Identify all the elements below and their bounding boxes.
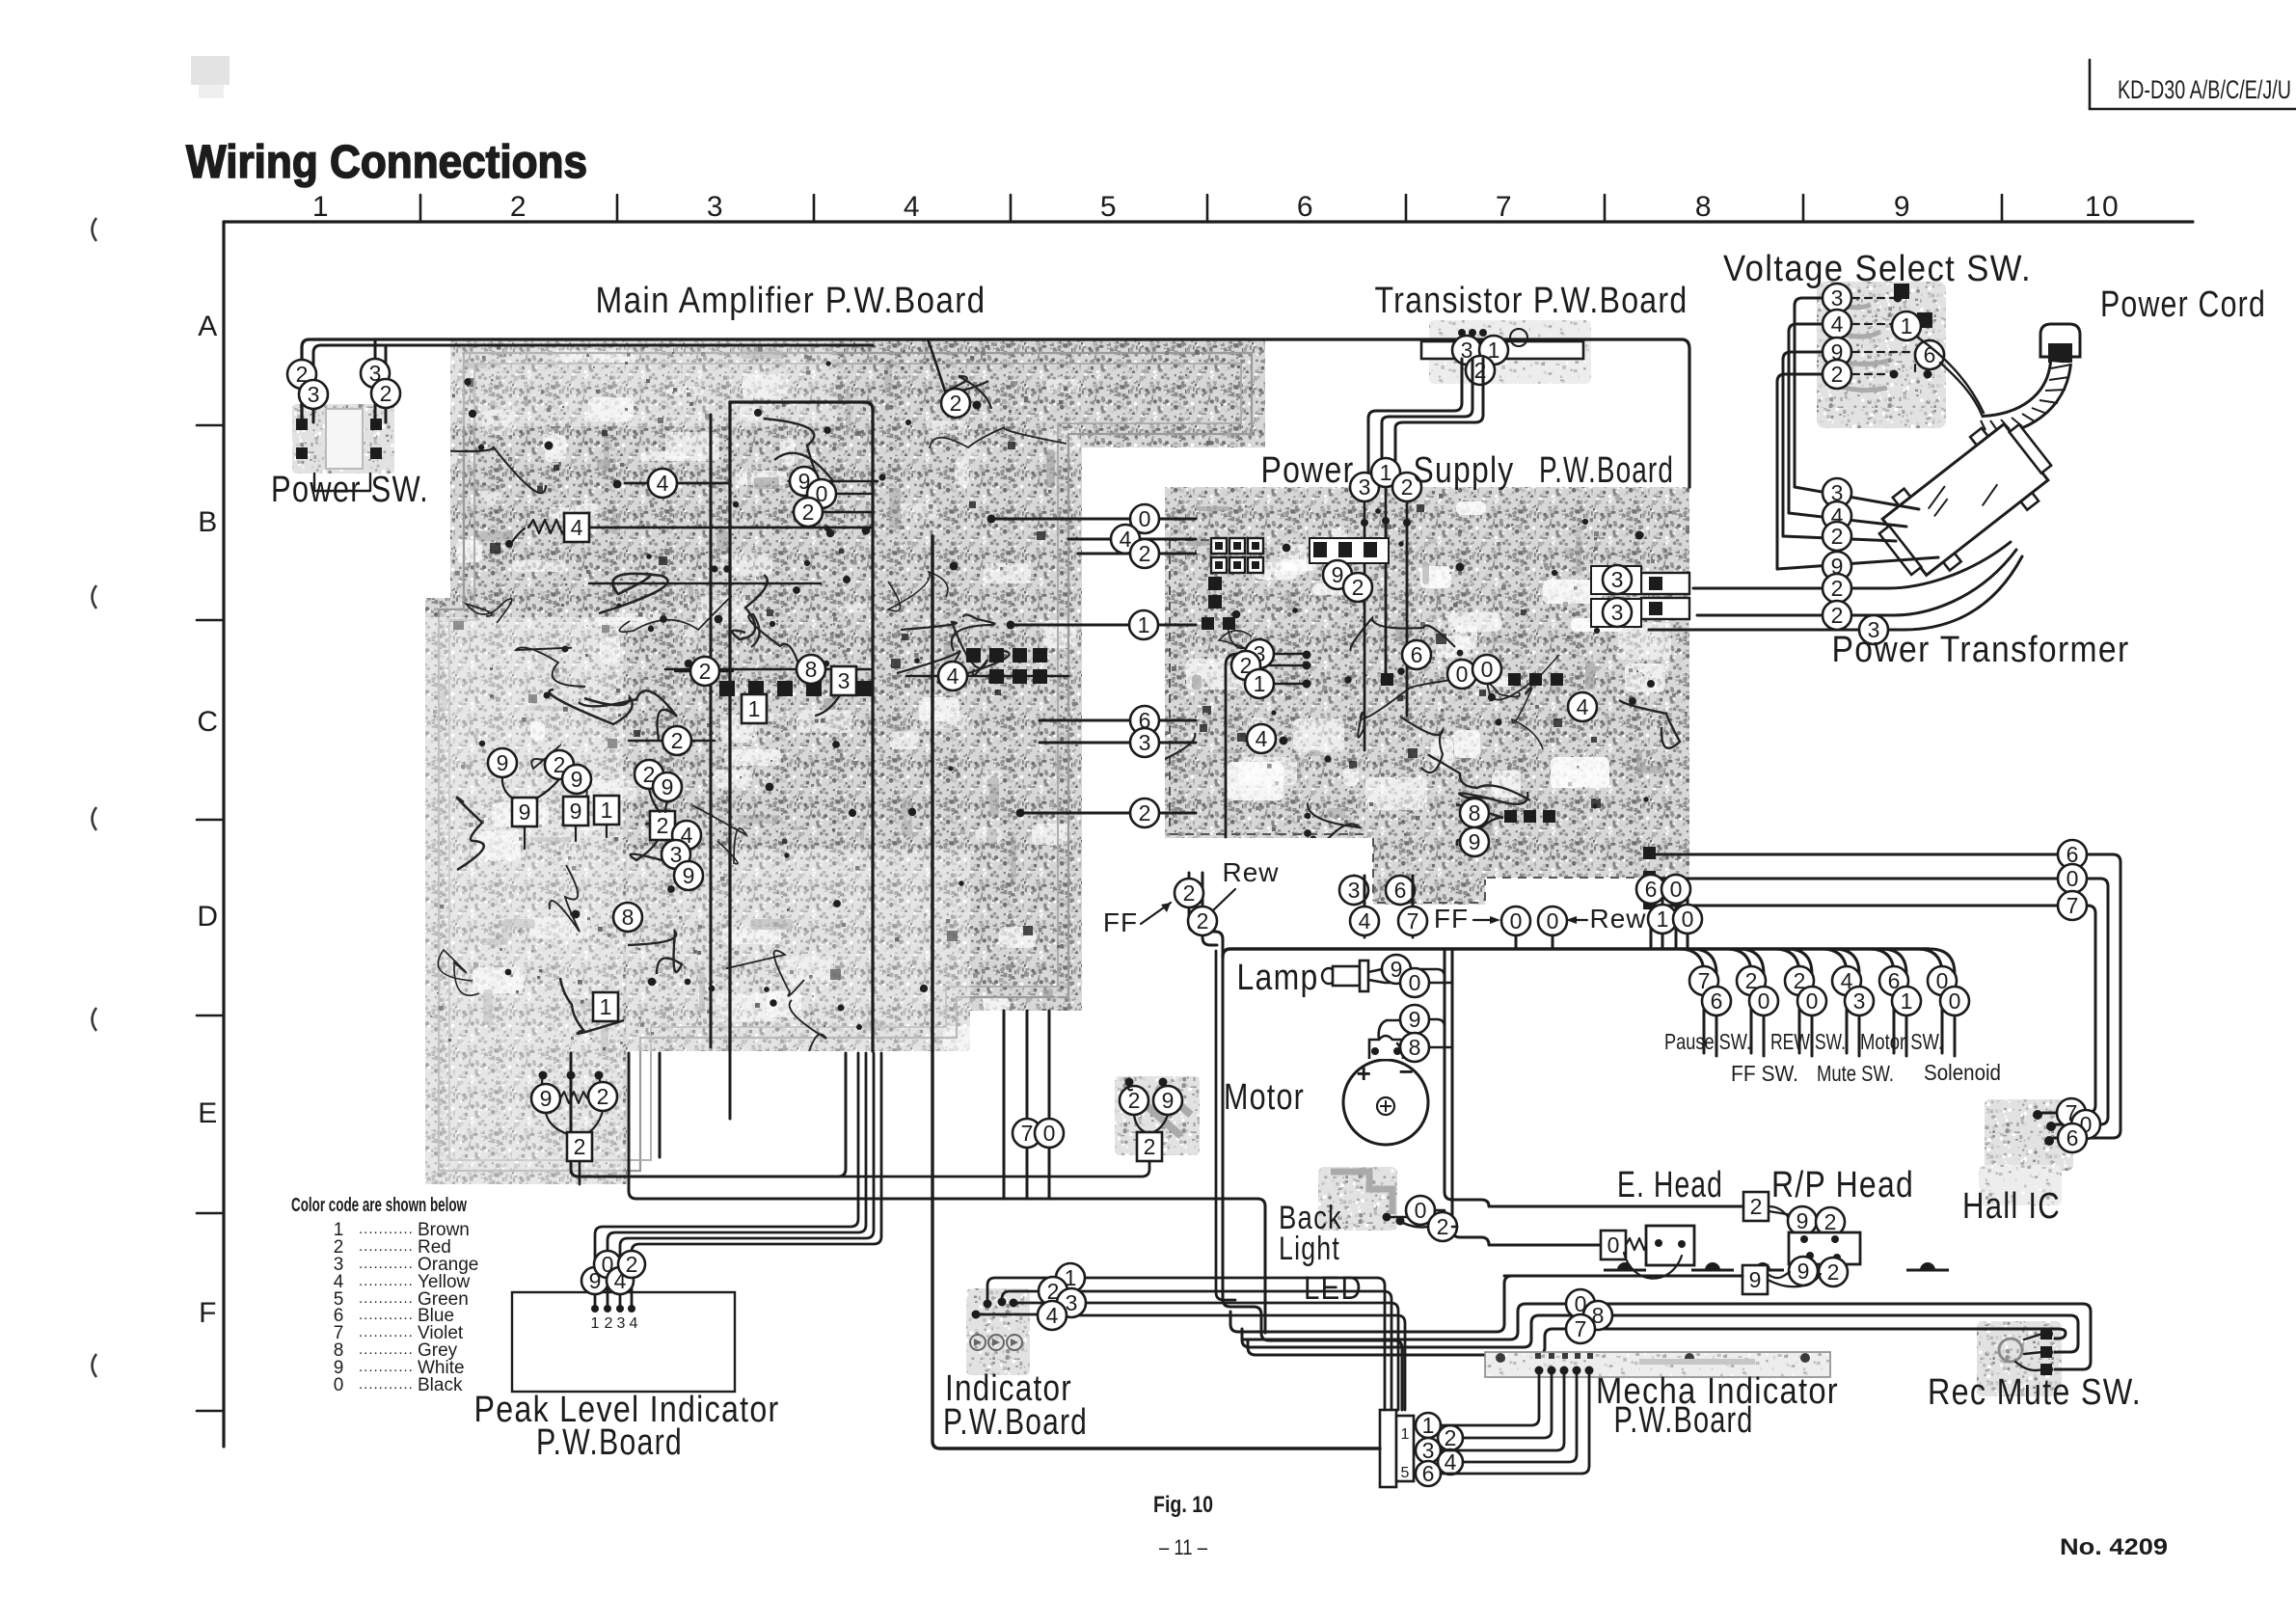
main amp trio red: [794, 498, 823, 527]
svg-text:E. Head: E. Head: [1617, 1165, 1723, 1205]
svg-text:Power Transformer: Power Transformer: [1832, 630, 2130, 670]
svg-text:Power: Power: [1261, 450, 1355, 491]
motor terminal block: [1369, 1036, 1403, 1059]
svg-text:2: 2: [1827, 1259, 1840, 1285]
wire peak level red: [632, 1053, 881, 1309]
cluster box tails: [525, 825, 607, 849]
ps trio drop wire: [1226, 654, 1237, 837]
hall IC feed violet: [2058, 891, 2087, 920]
dashed lead 9: [1852, 352, 1915, 372]
svg-text:6: 6: [1394, 878, 1407, 903]
svg-text:7: 7: [1021, 1121, 1034, 1146]
cluster boxed 9 b: [563, 797, 588, 826]
svg-text:P.W.Board: P.W.Board: [1614, 1400, 1754, 1441]
svg-text:1: 1: [1254, 671, 1266, 696]
svg-text:2: 2: [1401, 474, 1414, 500]
wire stub ps orange: [1364, 501, 1366, 521]
svg-text:2: 2: [574, 1134, 586, 1159]
wire mecha 1: [1441, 1375, 1539, 1425]
power SW terminal dot 1: [298, 420, 306, 428]
indicator pin 4: [972, 1311, 981, 1319]
power SW wire red: [287, 360, 316, 389]
patch wires merge: [1134, 1115, 1168, 1132]
svg-text:0: 0: [334, 1375, 344, 1395]
wire patch to left: [579, 1161, 1149, 1177]
cluster boxed 1 b: [593, 992, 618, 1021]
svg-text:3: 3: [1853, 988, 1866, 1014]
wire main amp to power supply 0: [991, 518, 1196, 521]
wire main amp to power supply 4: [1068, 538, 1196, 541]
svg-text:0: 0: [1949, 988, 1961, 1014]
peak level wire black code: [594, 1251, 621, 1278]
power supply left connector row 1: [1211, 538, 1263, 554]
svg-text:6: 6: [2066, 1125, 2079, 1150]
Rew switch wire black: [1538, 907, 1567, 935]
indicator wire orange code: [1057, 1288, 1086, 1317]
svg-text:B: B: [198, 506, 219, 538]
hall IC wire violet: [2057, 1098, 2086, 1127]
svg-text:3: 3: [707, 191, 724, 223]
color code legend row 8 Grey: [334, 1340, 458, 1361]
svg-text:5: 5: [1100, 191, 1118, 223]
interboard wire 4: [1111, 525, 1140, 554]
grid ruler tick 8: [1802, 195, 1805, 222]
Rew middle arrow: [1570, 919, 1587, 921]
motor terminal plus: [1371, 1047, 1379, 1055]
svg-text:Color code are shown below: Color code are shown below: [291, 1195, 467, 1216]
wire transistor to power supply 1: [1368, 359, 1462, 473]
svg-text:9: 9: [1469, 829, 1481, 854]
switch column wire left 1: [1679, 949, 1704, 1053]
main amplifier lighter zones: [425, 617, 623, 1184]
indicator PCB patch: [966, 1288, 1030, 1375]
wire circled4b run: [906, 675, 1068, 678]
wire white corner: [1238, 1276, 1512, 1332]
mecha indicator pin 4: [1573, 1367, 1581, 1375]
power SW pad 2: [370, 419, 382, 430]
svg-text:2: 2: [597, 1084, 609, 1109]
small PCB patch near motor: [1115, 1076, 1200, 1155]
main amp trio white: [790, 467, 819, 496]
svg-text:Rec Mute SW.: Rec Mute SW.: [1928, 1372, 2142, 1413]
drop wire black: [1661, 875, 1690, 904]
grid row tick F: [197, 1410, 224, 1413]
power supply edge wire orange 2: [1603, 598, 1632, 627]
long wire black code: [1566, 1289, 1595, 1318]
wire branch red top: [928, 339, 948, 399]
power transformer body: [1867, 409, 2064, 591]
svg-text:4: 4: [1445, 1449, 1457, 1475]
power supply edge connector boxes small: [1591, 566, 1641, 594]
Rew leader: [1213, 889, 1235, 910]
tape guide mark 2: [1691, 1262, 1734, 1270]
svg-text:3: 3: [617, 1315, 626, 1332]
svg-text:7: 7: [1407, 908, 1419, 934]
power cord solder pad 2: [1917, 312, 1932, 328]
svg-text:P.W.Board: P.W.Board: [1539, 450, 1674, 491]
power SW terminal dot 2: [371, 420, 379, 428]
svg-text:1: 1: [600, 994, 612, 1019]
svg-text:2: 2: [1352, 575, 1364, 600]
switch 1 upper color: [1689, 966, 1718, 995]
indicator wire brown code: [1056, 1263, 1085, 1292]
wire main amp interior vertical 2: [710, 415, 713, 1047]
svg-text:Rew: Rew: [1589, 904, 1646, 934]
patch boxed 2: [1137, 1132, 1162, 1161]
grid ruler tick 2: [616, 195, 619, 222]
grid row tick E: [197, 1212, 224, 1215]
svg-text:1: 1: [1401, 1426, 1410, 1443]
transistor board wire orange: [1452, 336, 1481, 365]
patch wire red code: [1120, 1086, 1148, 1115]
hall IC wire blue: [2058, 1123, 2087, 1152]
svg-text:3: 3: [308, 382, 320, 407]
power cord wire brown: [1892, 311, 1921, 340]
cluster 8: [613, 903, 642, 932]
power SW pad 3: [296, 447, 308, 459]
switch 5 lower color: [1892, 987, 1921, 1015]
svg-text:1: 1: [1380, 460, 1392, 485]
power supply right edge connector 2: [1641, 598, 1689, 619]
main amplifier P.W.Board copper artwork region: [425, 339, 1265, 1184]
switch 4 lower color: [1845, 987, 1874, 1015]
power supply right edge connector 1: [1641, 573, 1689, 594]
wire boxed9 to 2: [1768, 1274, 1821, 1286]
pin curves: [542, 1075, 603, 1098]
svg-text:2: 2: [1831, 362, 1844, 387]
wire indicator brown: [987, 1278, 1055, 1304]
wire boxed4 run: [589, 527, 871, 529]
svg-text:Power SW.: Power SW.: [271, 470, 429, 510]
tape guide mark 3: [1742, 1262, 1784, 1270]
color code legend row 3 Orange: [334, 1255, 479, 1275]
svg-text:2: 2: [1445, 1425, 1457, 1450]
wire power cord lead 1: [1918, 338, 1984, 413]
grid ruler tick 4: [1010, 195, 1013, 222]
R/P head pin 3: [1806, 1252, 1814, 1259]
wire lamp enclosure second vertical: [1216, 951, 1235, 1300]
wire power cord lead 6: [1940, 363, 1983, 417]
svg-text:6: 6: [1297, 191, 1314, 223]
voltage select wire white: [1823, 338, 1851, 366]
svg-text:9: 9: [540, 1086, 553, 1111]
R/P head wire white bottom: [1789, 1257, 1818, 1286]
main amplifier overlay solder dots: [464, 361, 964, 1030]
wire bus to E head boxed 2: [1445, 949, 1743, 1206]
R/P head pin 4: [1833, 1254, 1841, 1261]
hall IC lead black: [2056, 1123, 2072, 1126]
svg-text:9: 9: [1162, 1088, 1175, 1113]
wire trio black: [806, 493, 873, 496]
power cord wire blue: [1915, 340, 1944, 369]
wire boxed2 to 2: [1769, 1211, 1817, 1221]
binding mark 5: [93, 1354, 97, 1377]
back light LED PCB patch: [1318, 1167, 1397, 1231]
wire indicator orange: [1013, 1302, 1056, 1305]
svg-text:0: 0: [1547, 908, 1559, 934]
mecha wire red: [1438, 1425, 1463, 1450]
grid frame left vertical line: [222, 222, 225, 1447]
switch column wire right 5: [1881, 949, 1906, 1056]
switch 6 lower color: [1940, 987, 1969, 1015]
svg-text:No. 4209: No. 4209: [2060, 1534, 2168, 1560]
switch column wire left 6: [1917, 949, 1942, 1053]
svg-text:9: 9: [1332, 562, 1344, 587]
svg-text:1: 1: [1138, 612, 1150, 637]
svg-text:3: 3: [1611, 600, 1624, 625]
wire transformer secondary red 2: [1697, 550, 2016, 615]
grid ruler tick 7: [1604, 195, 1607, 222]
color code legend row 9 White: [334, 1358, 465, 1378]
svg-text:KD-D30 A/B/C/E/J/U: KD-D30 A/B/C/E/J/U: [2118, 75, 2291, 104]
wire blue stub below ps: [1399, 876, 1402, 905]
wire indicator yellow b: [1067, 1315, 1405, 1410]
R/P head boxed 2: [1743, 1192, 1769, 1221]
svg-text:2: 2: [1750, 1194, 1763, 1219]
peak level wire red code: [618, 1251, 645, 1278]
mecha wire orange: [1416, 1438, 1441, 1463]
rec mute SW PCB patch: [1977, 1321, 2062, 1396]
wire drop x1738: [1675, 880, 1678, 949]
power SW wire orange: [299, 380, 328, 409]
svg-text:1: 1: [1901, 988, 1913, 1014]
wire transformer secondary red 1: [1693, 542, 2011, 588]
ps interior brown: [1245, 669, 1274, 698]
drop wire black2: [1673, 905, 1702, 934]
lower cluster boxed 2: [567, 1132, 592, 1161]
hall IC PCB patch: [1985, 1099, 2073, 1171]
motor wire grey code: [1400, 1033, 1429, 1062]
binding mark 3: [93, 807, 97, 830]
main amp boxed 1: [742, 694, 767, 723]
svg-text:2: 2: [605, 1315, 613, 1332]
R/P head pin 2: [1831, 1235, 1839, 1243]
svg-text:...........: ...........: [359, 1221, 414, 1237]
color code legend row 6 Blue: [334, 1306, 454, 1326]
svg-text:2: 2: [626, 1252, 638, 1277]
power supply board dashed outline: [1170, 540, 1688, 903]
E head resistor squiggle: [1626, 1238, 1653, 1250]
svg-text:4: 4: [657, 471, 669, 496]
svg-text:10: 10: [2085, 191, 2120, 223]
below ps yellow: [1350, 907, 1379, 935]
main amp circled 4: [648, 469, 677, 498]
svg-text:4: 4: [1046, 1303, 1059, 1328]
wire power SW second conductor: [313, 345, 873, 422]
svg-text:4: 4: [571, 515, 583, 540]
dashed lead 4: [1852, 323, 1894, 325]
transistor board PCB patch: [1429, 320, 1591, 384]
cluster 2 b: [635, 760, 663, 789]
wire interior run 605: [589, 582, 821, 585]
wire indicator red: [1002, 1291, 1038, 1302]
power supply left connector row 2: [1211, 557, 1263, 573]
grid row tick C: [197, 819, 224, 822]
color code legend row 4 Yellow: [334, 1272, 471, 1292]
main amp top wire red: [941, 389, 970, 418]
voltage select wire red: [1823, 360, 1851, 389]
svg-text:2: 2: [1831, 603, 1844, 628]
svg-text:Voltage Select SW.: Voltage Select SW.: [1723, 249, 2032, 289]
svg-text:1: 1: [591, 1315, 600, 1332]
svg-text:2: 2: [1824, 1209, 1837, 1234]
ps interior pads row: [1202, 617, 1235, 630]
nest left corner 2: [1242, 1329, 1250, 1347]
svg-text:9: 9: [1749, 1267, 1762, 1292]
E head boxed 0: [1601, 1231, 1626, 1259]
lower cluster resistor: [560, 1092, 587, 1103]
pin dot c: [595, 1071, 604, 1080]
wire violet drop b: [1026, 1011, 1029, 1199]
rec mute link 3: [2015, 1362, 2042, 1370]
svg-text:1: 1: [1657, 907, 1669, 932]
ps interior blue: [1402, 640, 1431, 669]
wire circled8 run: [665, 668, 797, 671]
ps interior pads row2: [1504, 810, 1555, 823]
wire power SW to power supply top bus: [302, 339, 1689, 487]
dashed lead 3: [1852, 297, 1894, 299]
svg-text:Rew: Rew: [1222, 857, 1279, 887]
wire stub under main amp: [659, 1053, 662, 1157]
svg-text:...........: ...........: [359, 1238, 414, 1255]
switch 2 upper color: [1737, 966, 1766, 995]
transformer secondary wire red 2: [1823, 601, 1851, 630]
E head body: [1646, 1226, 1694, 1265]
color code legend row 5 Green: [334, 1289, 469, 1310]
rec mute pad 1: [2040, 1328, 2052, 1340]
grid ruler horizontal line: [224, 220, 2193, 223]
main amplifier board trace outline: [439, 353, 1252, 1171]
wire violet to rec mute: [1256, 1329, 2066, 1355]
svg-text:8: 8: [805, 657, 818, 682]
peak level wire white code: [581, 1267, 608, 1294]
hall IC lead violet: [2042, 1112, 2058, 1115]
grid ruler tick 3: [813, 195, 816, 222]
svg-text:+: +: [1357, 1059, 1373, 1088]
hall IC pin 2: [2046, 1122, 2056, 1131]
power supply left pad 1: [1208, 577, 1222, 590]
Rew wire red: [1188, 907, 1217, 935]
lower cluster 2: [588, 1082, 617, 1111]
wire main amp to power supply 2: [1020, 812, 1196, 815]
lamp wire black: [1368, 980, 1452, 983]
wire ps interior drop 1: [1385, 521, 1388, 675]
svg-text:Wiring Connections: Wiring Connections: [186, 137, 587, 188]
wire transformer red: [1783, 536, 1896, 541]
rec mute pad 2: [2040, 1346, 2052, 1358]
svg-text:Power Cord: Power Cord: [2100, 284, 2266, 325]
grid row tick B: [197, 619, 224, 622]
svg-text:D: D: [197, 901, 219, 933]
backlight wire black: [1406, 1196, 1435, 1225]
R/P head wire red bottom: [1819, 1258, 1848, 1286]
wire long bus under main amp: [629, 1053, 1265, 1333]
patch wire link: [1128, 1082, 1132, 1090]
interboard wire 2: [1130, 539, 1159, 568]
E head ground loop: [1624, 1253, 1682, 1279]
main amp boxed 3: [831, 666, 856, 695]
mecha connector body: [1380, 1410, 1396, 1487]
svg-text:4: 4: [1256, 726, 1268, 751]
svg-text:Fig. 10: Fig. 10: [1153, 1492, 1213, 1518]
cluster boxed 1: [594, 796, 619, 825]
indicator pin 3: [1010, 1299, 1018, 1308]
switch 6 upper color: [1928, 966, 1957, 995]
transistor board pin dot 3: [1479, 329, 1487, 337]
wire drop x1712: [1650, 880, 1653, 949]
main amplifier extra speckle: [427, 342, 1252, 1050]
wire orange stub below ps: [1353, 876, 1356, 905]
power SW pad 4: [370, 447, 382, 459]
switch column wire right 4: [1834, 949, 1859, 1056]
svg-text:0: 0: [1670, 877, 1683, 902]
power supply P.W.Board copper artwork region: [1165, 487, 1689, 905]
power supply board mottling: [1186, 501, 1671, 836]
transformer wire white: [1823, 552, 1851, 581]
below ps orange: [1339, 876, 1368, 905]
peak level wire yellow code: [607, 1267, 634, 1294]
svg-text:0: 0: [1139, 506, 1151, 531]
main amp circled 8: [797, 655, 825, 684]
svg-text:9: 9: [683, 863, 695, 888]
svg-text:Black: Black: [418, 1375, 463, 1395]
wire main amp interior box right: [730, 402, 873, 1051]
mecha wire blue: [1416, 1461, 1441, 1486]
main amp circled 4b: [938, 662, 967, 690]
svg-text:9: 9: [1797, 1259, 1810, 1284]
svg-text:5: 5: [1401, 1465, 1410, 1481]
wire bus to E head boxed 0: [1452, 949, 1601, 1245]
svg-text:4: 4: [1120, 527, 1132, 552]
wire backlight black: [1391, 1216, 1406, 1219]
svg-text:...........: ...........: [359, 1290, 414, 1307]
wire transformer white: [1777, 557, 1938, 569]
ps interior yellow: [1568, 692, 1597, 721]
rec mute pin 3: [2043, 1365, 2053, 1374]
svg-text:8: 8: [622, 905, 635, 930]
main amp trio black: [807, 479, 836, 508]
wire Rew drop: [1202, 873, 1217, 945]
svg-text:Light: Light: [1279, 1231, 1340, 1267]
svg-text:6: 6: [1422, 1461, 1435, 1486]
switch 3 upper color: [1785, 966, 1814, 995]
wire indicator orange b: [1086, 1303, 1398, 1410]
svg-text:Pause SW.: Pause SW.: [1664, 1029, 1751, 1054]
pin dot a: [539, 1071, 548, 1080]
svg-text:...........: ...........: [359, 1341, 414, 1358]
svg-text:Supply: Supply: [1414, 450, 1515, 491]
svg-text:0: 0: [1607, 1232, 1620, 1258]
ps interior grey: [1460, 798, 1489, 827]
switch 1 lower color: [1702, 987, 1731, 1015]
wire ps interior drop 3: [1364, 523, 1366, 750]
wire peak level white: [595, 1053, 858, 1309]
power supply pad blue: [1643, 847, 1656, 859]
long wire grey code: [1583, 1301, 1612, 1330]
wire voltage select 9 riser: [1783, 352, 1822, 536]
svg-text:P.W.Board: P.W.Board: [943, 1402, 1088, 1443]
svg-text:3: 3: [838, 668, 851, 693]
wire transistor to power supply 3: [1395, 359, 1483, 473]
tape guide mark 4: [1906, 1262, 1949, 1270]
svg-text:0: 0: [1456, 662, 1469, 687]
interboard wire 2: [1130, 798, 1159, 827]
hall IC feed blue: [2058, 840, 2087, 869]
svg-text:2: 2: [1831, 524, 1844, 549]
power supply extra speckle: [1169, 494, 1690, 871]
svg-text:1: 1: [748, 696, 761, 721]
svg-text:2: 2: [1128, 1088, 1141, 1113]
